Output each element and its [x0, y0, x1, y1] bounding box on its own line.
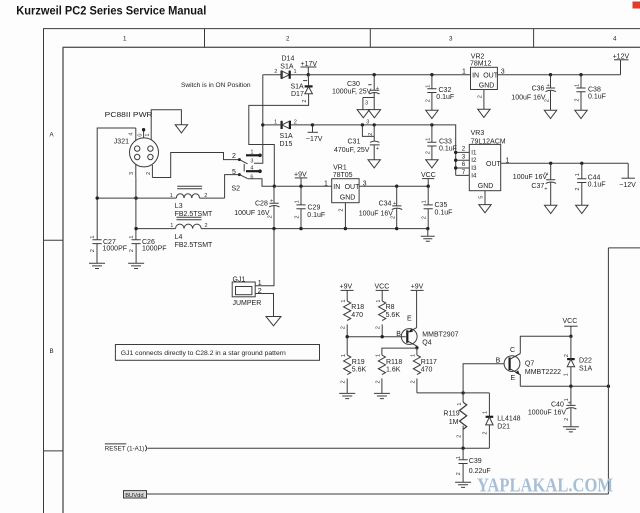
earth ground C26	[128, 263, 144, 268]
svg-text:1: 1	[456, 456, 462, 459]
ground triangle C33	[426, 160, 438, 168]
junction VCC / D22	[569, 335, 572, 338]
svg-text:78M12: 78M12	[470, 61, 492, 68]
wire Q7 collector to VCC	[520, 336, 571, 353]
svg-text:2: 2	[274, 69, 277, 75]
svg-text:I3: I3	[471, 165, 477, 172]
svg-text:2: 2	[129, 249, 135, 252]
junction VR1 gnd	[344, 227, 347, 230]
resistor R119 1M	[443, 393, 466, 448]
svg-text:MMBT2907: MMBT2907	[422, 331, 458, 338]
svg-text:2: 2	[376, 326, 382, 329]
transistor Q7 MMBT2222	[496, 347, 562, 386]
svg-text:VCC: VCC	[375, 283, 390, 290]
svg-text:100uF 16V: 100uF 16V	[359, 210, 394, 217]
ground triangle C44	[576, 205, 588, 213]
svg-text:1: 1	[123, 36, 127, 43]
svg-text:0.1uF: 0.1uF	[439, 146, 457, 153]
svg-text:OUT: OUT	[486, 161, 502, 168]
svg-text:7: 7	[462, 169, 466, 176]
junction +17V / D17	[307, 73, 310, 76]
svg-text:2: 2	[410, 380, 416, 383]
svg-text:1: 1	[341, 299, 347, 302]
svg-text:R118: R118	[386, 359, 402, 366]
svg-text:2: 2	[421, 216, 427, 219]
svg-text:Kurzweil PC2 Series Service Ma: Kurzweil PC2 Series Service Manual	[16, 5, 206, 18]
svg-text:R117: R117	[421, 359, 437, 366]
svg-text:C33: C33	[439, 139, 452, 146]
svg-text:2: 2	[146, 172, 152, 175]
capacitor C27 1000PF	[90, 235, 127, 263]
svg-text:S2: S2	[232, 185, 241, 192]
resistor R8 5.6K	[376, 299, 401, 336]
resistor R19 5.6K	[341, 337, 367, 394]
svg-text:1: 1	[564, 373, 570, 376]
svg-text:5.6K: 5.6K	[386, 312, 401, 319]
row divider A|B	[44, 239, 64, 241]
ground triangle C38	[575, 110, 587, 118]
svg-text:5.6K: 5.6K	[352, 367, 367, 374]
net VCC at R8	[375, 283, 390, 301]
wire RESET rail	[148, 447, 490, 449]
wire D17 bottom loop to star node	[249, 94, 309, 187]
svg-text:GJ1 connects directly to C28.2: GJ1 connects directly to C28.2 in a star…	[121, 350, 287, 357]
net ~17V	[306, 125, 323, 143]
svg-text:YAPLAKAL.COM: YAPLAKAL.COM	[477, 475, 613, 497]
wire VR3 out to ~12V	[501, 163, 629, 178]
svg-text:4: 4	[250, 166, 253, 172]
svg-text:78T05: 78T05	[333, 172, 353, 179]
capacitor C34 100uF 16V	[359, 186, 403, 228]
capacitor C32 0.1uF	[425, 75, 454, 111]
svg-text:1: 1	[483, 411, 489, 414]
junction C36 top	[549, 73, 552, 76]
svg-text:D17: D17	[291, 91, 304, 98]
junction VCC / C35	[427, 185, 430, 188]
svg-text:R18: R18	[351, 304, 364, 311]
regulator VR3 79L12ACM	[456, 130, 510, 205]
red corner mark	[633, 2, 640, 9]
net +12V	[613, 54, 630, 61]
diode D15 S1A	[263, 119, 313, 148]
svg-text:1: 1	[274, 119, 277, 125]
svg-text:1: 1	[129, 235, 135, 238]
svg-text:3: 3	[250, 159, 253, 165]
wire J321 pin3 down to C26	[135, 177, 137, 240]
svg-text:GND: GND	[340, 195, 356, 202]
svg-text:2: 2	[302, 99, 308, 102]
svg-text:C29: C29	[308, 204, 321, 211]
svg-text:R119: R119	[443, 410, 459, 417]
junction +9V	[299, 185, 302, 188]
junction C33 top	[430, 123, 433, 126]
svg-text:S1A: S1A	[280, 64, 294, 71]
junction Q4 collector	[415, 346, 418, 349]
svg-text:C30: C30	[347, 81, 360, 88]
svg-text:L4: L4	[175, 234, 183, 241]
svg-text:D21: D21	[497, 424, 510, 431]
wire BUVdd riser and top stub	[608, 248, 640, 494]
svg-text:JUMPER: JUMPER	[233, 300, 262, 307]
svg-text:0.1uF: 0.1uF	[588, 94, 606, 101]
svg-text:PC88II PWR: PC88II PWR	[105, 112, 153, 119]
svg-text:+9V: +9V	[340, 283, 353, 290]
junction ground rail end	[426, 227, 429, 230]
column divider 1|2	[204, 29, 206, 48]
capacitor C40 1000uF 16V	[528, 386, 577, 427]
resistor R118 1.6K	[375, 354, 402, 394]
wire ~17V rail to VR3 bus	[313, 125, 456, 175]
svg-text:I2: I2	[471, 157, 477, 164]
svg-text:1: 1	[462, 69, 466, 76]
svg-text:1: 1	[145, 133, 151, 136]
svg-text:0.1uF: 0.1uF	[435, 210, 453, 217]
wire star node down to GJ1 pin1	[255, 229, 274, 286]
diode D21 LL4148	[483, 393, 521, 448]
svg-text:1: 1	[258, 280, 262, 287]
wire J321 pin2 to S2 pin2	[152, 153, 239, 178]
svg-text:FB2.5TSMT: FB2.5TSMT	[175, 242, 213, 249]
column divider 3|4	[533, 29, 535, 48]
wire S2 pin6 to star node	[248, 179, 274, 187]
wire star node to VR1 input	[274, 185, 331, 187]
svg-text:C32: C32	[439, 87, 452, 94]
junction C39 top	[461, 447, 464, 450]
svg-text:+: +	[376, 146, 379, 152]
svg-text:+: +	[544, 186, 547, 192]
inductor L4 FB2.5TSMT	[170, 217, 213, 249]
junction R119 top	[461, 391, 464, 394]
svg-text:2: 2	[268, 215, 274, 218]
svg-text:1: 1	[294, 200, 300, 203]
svg-text:1: 1	[411, 354, 417, 357]
wire Q7 emitter rail	[520, 385, 608, 387]
svg-text:6: 6	[462, 161, 466, 168]
jumper GJ1	[232, 276, 262, 307]
junction D15 line / S2 vertical	[261, 123, 264, 126]
svg-text:B: B	[50, 348, 54, 355]
junction star node	[273, 185, 276, 188]
junction C31 left	[361, 123, 364, 126]
svg-text:BUVdd: BUVdd	[125, 493, 143, 499]
capacitor C36 100uF 16V	[511, 75, 556, 111]
capacitor C33 0.1uF	[425, 125, 457, 160]
svg-text:+: +	[270, 198, 273, 204]
earth ground R19	[339, 393, 355, 398]
junction D22 / emitter rail	[569, 385, 572, 388]
wire BUVdd rail	[147, 493, 609, 495]
svg-text:2: 2	[204, 193, 207, 199]
junction ~17V	[311, 123, 314, 126]
svg-text:2: 2	[341, 326, 347, 329]
svg-text:3: 3	[365, 101, 368, 107]
svg-text:1: 1	[250, 150, 253, 156]
svg-text:E: E	[407, 315, 412, 322]
svg-text:D15: D15	[280, 141, 293, 148]
svg-text:+: +	[376, 86, 379, 92]
svg-text:RESET (1-A1): RESET (1-A1)	[105, 445, 144, 452]
capacitor C37 100uF 16V	[513, 163, 556, 205]
svg-text:+9V: +9V	[294, 171, 307, 178]
svg-text:C28: C28	[255, 201, 268, 208]
svg-text:100UF 16V: 100UF 16V	[234, 210, 270, 217]
svg-text:1000PF: 1000PF	[142, 246, 167, 253]
svg-text:B: B	[496, 358, 501, 365]
ground triangle C37	[545, 205, 557, 213]
junction L3 rail / J321 pin3	[134, 196, 137, 199]
wire J321 pin1 to chassis ground	[151, 110, 181, 135]
junction VR3 bus pin3	[454, 159, 457, 162]
wire Q7 base riser	[463, 364, 504, 393]
svg-text:MMBT2222: MMBT2222	[525, 369, 561, 376]
net +9V at VR1 input	[294, 171, 307, 186]
svg-text:2: 2	[425, 151, 431, 154]
net ~12V	[619, 178, 636, 189]
wire +17V rail to VR2	[308, 74, 470, 76]
wire S2 pin3 stub to diode node	[254, 75, 263, 164]
connector J321 PC88II PWR	[105, 112, 159, 178]
net +9V at Q4 emitter	[411, 283, 424, 327]
svg-text:GND: GND	[479, 82, 495, 89]
svg-text:2: 2	[286, 36, 290, 43]
ground triangle at J321 pin1	[175, 125, 187, 133]
regulator VR2 78M12	[462, 53, 505, 109]
junction C44 top	[580, 162, 583, 165]
ground triangle C36	[544, 110, 556, 118]
transistor Q4 MMBT2907	[396, 315, 458, 347]
resistor R117 470	[410, 348, 437, 393]
wire VR2 out to +12V	[497, 60, 620, 75]
svg-text:C31: C31	[348, 138, 361, 145]
svg-text:INOUT: INOUT	[472, 73, 499, 80]
junction VR3 bus pin2	[454, 151, 457, 154]
svg-text:Q4: Q4	[422, 340, 431, 347]
svg-text:C: C	[510, 347, 515, 354]
net label BUVdd	[124, 491, 147, 499]
note box GJ1 star ground	[115, 345, 319, 361]
capacitor C28 100UF 16V	[234, 186, 279, 228]
svg-text:1: 1	[341, 354, 347, 357]
net +9V at R18	[340, 283, 354, 301]
svg-text:1: 1	[575, 173, 581, 176]
svg-text:~12V: ~12V	[619, 182, 636, 189]
junction emitter rail / BUVdd riser	[607, 385, 610, 388]
svg-text:2: 2	[390, 216, 396, 219]
svg-text:GND: GND	[478, 183, 494, 190]
earth ground C39	[455, 482, 471, 487]
resistor R18 470	[341, 299, 365, 336]
inductor L3 FB2.5TSMT	[170, 186, 213, 218]
wire ground rail C26 to C35	[136, 228, 428, 230]
svg-text:Switch is in ON Position: Switch is in ON Position	[181, 82, 251, 89]
diode D17 S1A	[291, 75, 313, 103]
svg-text:2: 2	[544, 99, 550, 102]
svg-text:1: 1	[90, 235, 96, 238]
svg-text:L3: L3	[175, 203, 183, 210]
earth ground C40	[563, 427, 579, 432]
svg-text:2: 2	[564, 354, 570, 357]
svg-text:470uF, 25V: 470uF, 25V	[334, 147, 370, 154]
ground triangle GJ1	[266, 317, 281, 326]
svg-text:D22: D22	[579, 358, 592, 365]
svg-text:0.1uF: 0.1uF	[588, 182, 606, 189]
svg-text:C35: C35	[435, 202, 448, 209]
capacitor C35 0.1uF	[421, 186, 452, 228]
svg-text:C34: C34	[379, 201, 392, 208]
svg-text:2: 2	[339, 208, 345, 211]
svg-text:2: 2	[294, 215, 300, 218]
svg-text:2: 2	[375, 380, 381, 383]
svg-text:+: +	[547, 83, 550, 89]
svg-text:1000PF: 1000PF	[103, 246, 128, 253]
svg-text:470: 470	[351, 312, 363, 319]
svg-text:1: 1	[425, 85, 431, 88]
svg-text:S1A: S1A	[280, 133, 294, 140]
svg-text:VCC: VCC	[421, 172, 436, 179]
svg-text:LL4148: LL4148	[497, 415, 520, 422]
svg-text:B: B	[396, 331, 401, 338]
net VCC at C35	[421, 172, 436, 186]
capacitor C38 0.1uF	[574, 75, 606, 111]
earth ground R118	[374, 393, 390, 398]
net +17V	[301, 61, 318, 75]
wire L3 rail to S2 pin5	[97, 175, 239, 199]
svg-text:S1A: S1A	[579, 366, 593, 373]
svg-text:5: 5	[232, 169, 236, 176]
diode D14 S1A	[263, 56, 309, 79]
svg-text:2: 2	[456, 472, 462, 475]
svg-text:VCC: VCC	[563, 318, 578, 325]
junction VR3 bus pin6	[454, 166, 457, 169]
svg-text:2: 2	[232, 153, 236, 160]
ground triangle C31	[368, 160, 380, 168]
svg-text:2: 2	[341, 380, 347, 383]
svg-text:VR3: VR3	[471, 130, 485, 137]
svg-text:3: 3	[129, 172, 135, 175]
svg-text:VR2: VR2	[471, 53, 485, 60]
svg-text:+: +	[393, 201, 396, 207]
junction C30 top	[373, 73, 376, 76]
net VCC at Q7	[563, 318, 578, 336]
wire R118 to collector	[382, 348, 417, 355]
junction C29 bottom	[299, 227, 302, 230]
svg-text:R8: R8	[386, 304, 395, 311]
svg-text:2: 2	[462, 146, 466, 153]
svg-text:~17V: ~17V	[306, 136, 323, 143]
junction R8 bottom	[381, 335, 384, 338]
switch S2	[232, 150, 262, 193]
regulator VR1 78T05	[324, 164, 367, 228]
ground triangle C30 right	[368, 110, 380, 118]
capacitor C26 1000PF	[129, 235, 167, 263]
svg-text:4: 4	[129, 132, 135, 135]
wire J321 pin4 to C27 branch	[97, 128, 136, 240]
ground triangle VR2	[478, 109, 490, 117]
svg-text:1: 1	[170, 193, 173, 199]
svg-text:VR1: VR1	[333, 164, 347, 171]
ground triangle C32	[426, 110, 438, 118]
svg-text:3: 3	[449, 36, 453, 43]
svg-text:C37: C37	[531, 183, 544, 190]
junction C34 bottom	[395, 227, 398, 230]
svg-text:2: 2	[457, 435, 463, 438]
svg-text:1000uF, 25V: 1000uF, 25V	[332, 88, 372, 95]
svg-text:+9V: +9V	[411, 283, 424, 290]
svg-text:INOUT: INOUT	[333, 184, 360, 191]
junction L3 rail / C27	[96, 196, 99, 199]
svg-text:I1: I1	[471, 149, 477, 156]
wire VR1 out rail	[359, 185, 428, 187]
svg-text:R19: R19	[352, 359, 365, 366]
svg-text:C39: C39	[469, 458, 482, 465]
junction C31 right	[373, 123, 376, 126]
wire R117 to R119/D21 node	[417, 392, 490, 394]
junction C28 bottom	[272, 227, 275, 230]
svg-text:2: 2	[294, 119, 297, 125]
diode D22 S1A	[564, 336, 593, 386]
capacitor C31 470uF 25V	[334, 120, 380, 160]
svg-text:2: 2	[564, 418, 570, 421]
svg-text:I4: I4	[471, 172, 477, 179]
svg-text:1000uF 16V: 1000uF 16V	[528, 410, 566, 417]
svg-text:C40: C40	[551, 401, 564, 408]
capacitor C39 0.22uF	[456, 448, 491, 482]
svg-text:1: 1	[376, 299, 382, 302]
svg-text:1: 1	[457, 402, 463, 405]
svg-text:1.6K: 1.6K	[386, 367, 401, 374]
svg-text:2: 2	[90, 249, 96, 252]
earth ground star	[421, 229, 435, 242]
svg-text:2: 2	[574, 98, 580, 101]
junction C34 top	[395, 185, 398, 188]
wire GJ1 pin2 to ground	[255, 294, 273, 317]
svg-text:0.1uF: 0.1uF	[436, 94, 454, 101]
capacitor C29 0.1uF	[294, 186, 325, 228]
svg-text:0.1uF: 0.1uF	[307, 212, 325, 219]
net label RESET (1-A1)	[105, 444, 147, 452]
svg-text:2: 2	[368, 133, 374, 136]
svg-text:4: 4	[613, 36, 617, 43]
svg-text:D14: D14	[282, 56, 295, 63]
row divider B|C	[44, 450, 64, 452]
svg-text:C44: C44	[588, 174, 601, 181]
ground triangle VR3	[479, 205, 491, 213]
svg-text:470: 470	[421, 367, 433, 374]
svg-text:2: 2	[483, 431, 489, 434]
wire Q4 base node	[347, 336, 406, 338]
svg-text:Q7: Q7	[525, 361, 534, 368]
earth ground C27	[89, 263, 105, 268]
svg-text:2: 2	[477, 95, 483, 98]
svg-text:1M: 1M	[449, 419, 459, 426]
svg-text:5: 5	[478, 196, 484, 199]
svg-text:+: +	[568, 400, 571, 406]
capacitor C44 0.1uF	[575, 163, 605, 205]
junction R18/R19	[346, 335, 349, 338]
column divider 2|3	[369, 29, 371, 48]
svg-text:3: 3	[366, 120, 369, 126]
svg-text:1: 1	[421, 200, 427, 203]
svg-text:1: 1	[294, 69, 297, 75]
svg-text:0: 0	[138, 133, 144, 136]
junction C26 top	[134, 227, 137, 230]
svg-text:2: 2	[575, 187, 581, 190]
svg-text:E: E	[511, 375, 516, 382]
capacitor C30 1000uF 25V	[332, 75, 380, 110]
svg-text:1: 1	[376, 354, 382, 357]
svg-text:J321: J321	[114, 139, 129, 146]
svg-text:3: 3	[462, 153, 466, 160]
